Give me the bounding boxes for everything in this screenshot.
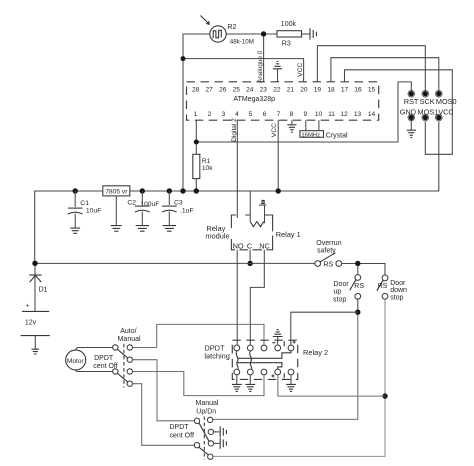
node junction dot (Analogue 0 net) [261,31,266,36]
svg-text:RS: RS [378,283,388,290]
manual lever 1 [199,423,209,442]
svg-text:6: 6 [263,111,267,118]
svg-text:NC: NC [259,241,270,250]
junction dot on R2 feed [181,56,186,61]
svg-text:cent Off: cent Off [170,433,194,440]
switch door down stop bottom terminal [382,293,388,299]
svg-text:R2: R2 [228,24,237,31]
wire R1 to +5V rail [195,179,197,191]
switch manual throw 3 [208,441,213,446]
capacitor C3 [162,191,177,225]
IC U1 ATMega328p [187,82,379,120]
wire to door up stop [357,266,359,275]
svg-text:down: down [390,287,407,294]
relay2 linkage bar A [238,351,291,358]
svg-text:VCC: VCC [271,123,278,137]
wire node to R3 [226,33,277,35]
junction dot R1 on +5V rail [194,188,199,193]
ground (C1) [70,228,80,233]
relay module box (Relay 1) [231,215,272,250]
relay2 top contact 5 [288,345,294,351]
photoresistor R2 [201,16,227,43]
svg-text:Overrun: Overrun [316,240,341,247]
svg-text:D1: D1 [39,287,48,294]
auto/manual lever 1 [117,349,128,358]
svg-text:stop: stop [390,294,403,301]
svg-text:22: 22 [273,86,281,93]
capacitor C1 [68,191,83,228]
svg-text:100uF: 100uF [140,201,159,208]
ISP header pad MOS0 [436,91,441,96]
svg-text:MOS1: MOS1 [418,107,439,116]
svg-text:up: up [334,289,342,296]
relay2 coil polarity minus [272,342,275,344]
svg-text:RST: RST [404,97,419,106]
resistor R1 [193,154,200,178]
wire pin 10 to crystal [318,120,320,131]
svg-text:23: 23 [260,86,268,93]
switch auto/manual pole 1 [113,345,118,350]
ground (relay2 bottom contact 2) [245,375,255,391]
ground (manual throw 2, rotated) [220,426,226,437]
svg-text:stop: stop [333,296,346,303]
svg-text:10: 10 [315,111,323,118]
svg-text:27: 27 [206,86,214,93]
wire relay2 bottom contact 4 to door-down net [278,375,385,396]
svg-text:9: 9 [303,111,307,118]
relay2 top contact 2 [247,345,253,351]
junction dot C3 [167,188,172,193]
svg-text:ATMega328p: ATMega328p [234,96,276,103]
svg-text:Digital 2: Digital 2 [231,118,238,142]
svg-text:SCK: SCK [420,97,435,106]
door up stop lever [350,280,356,291]
wire manual throw 2 to ground [214,431,220,433]
svg-text:12: 12 [340,111,348,118]
capacitor C2 [135,191,150,225]
relay2 top contact 3 [261,345,267,351]
wire auto throw1 to relay2 pin 3 top [133,324,265,347]
ISP header pad SCK [423,91,428,96]
switch manual pole 2 [194,443,199,448]
svg-text:RS: RS [354,283,364,290]
wire pin 17 to MOS1 [345,70,453,155]
svg-text:R3: R3 [282,41,291,48]
svg-text:C2: C2 [127,200,136,207]
wire R2 left to vertical feed [183,34,210,191]
svg-text:VCC: VCC [297,62,304,76]
ground (ISP GND) [407,120,416,138]
switch door down stop top terminal [382,275,388,281]
junction dot relay1 C [247,261,252,266]
relay 1 coil [250,222,264,227]
svg-text:24: 24 [246,86,254,93]
svg-text:MOS0: MOS0 [436,97,457,106]
ground (7805) [111,196,122,231]
svg-text:C: C [247,241,253,250]
svg-text:11: 11 [328,111,335,118]
svg-text:10uF: 10uF [86,208,102,215]
svg-text:Relay 1: Relay 1 [276,230,301,239]
svg-text:Analogue 0: Analogue 0 [257,50,264,83]
wire door down stop to lower junction [213,299,385,456]
svg-text:Manual: Manual [118,336,141,343]
wire relay1 C to 12V line [249,250,251,263]
svg-text:Manual: Manual [196,400,219,407]
ground (relay2 bottom contact 5) [286,375,296,391]
ground (relay2 top, pin 4) [273,330,283,345]
ISP header pad MOS1 [423,115,428,120]
wire pin 1 riser [195,120,197,154]
wire pin 7 to +5V rail [277,120,279,191]
auto/manual lever 2 [117,373,128,382]
svg-text:4: 4 [235,111,239,118]
wire relay1 NC to relay2 pin 2 [250,250,264,345]
wire auto throw2 to manual pole 1 [133,360,195,421]
wire door up stop to junction [357,299,359,312]
svg-text:latching: latching [204,352,229,361]
svg-text:17: 17 [341,86,349,93]
door down stop lever [377,280,383,291]
switch manual throw 2 [208,429,213,434]
ground (battery) [32,349,40,354]
svg-text:5: 5 [249,111,253,118]
svg-text:16: 16 [354,86,362,93]
wire +5V rail [130,122,439,192]
switch manual throw 4 [208,454,213,459]
relay2 coil polarity plus (bottom) [272,374,275,377]
wire coil to driver symbol [264,205,266,223]
wire auto throw3 to relay2 pin 3 bottom [133,372,265,396]
wire manual throw 3 to ground [214,442,220,444]
svg-text:3: 3 [222,111,226,118]
svg-text:Auto/: Auto/ [120,328,136,335]
svg-text:RS: RS [324,262,334,269]
junction dot C1 [73,188,78,193]
svg-text:DPDT: DPDT [170,424,190,431]
wire pin 18 to MOS0 [331,58,439,92]
manual lever 2 [199,447,209,455]
svg-text:19: 19 [314,86,322,93]
svg-text:13: 13 [354,111,362,118]
svg-text:26: 26 [219,86,227,93]
junction dot C2 [140,188,145,193]
junction dot door-down net [382,393,387,398]
switch overrun safety terminal L [315,261,321,267]
svg-text:7805 vr: 7805 vr [105,189,128,196]
svg-text:Up/Dn: Up/Dn [196,409,216,416]
svg-text:module: module [205,231,229,240]
relay2 bottom contact 4 [275,369,281,375]
wire pin 4 Digital 2 to relay module input [236,120,238,218]
svg-text:16MHz: 16MHz [301,132,320,138]
wire 12V to overrun switch [35,262,315,264]
svg-text:14: 14 [368,111,376,118]
ground (pin 8) [287,120,296,132]
switch overrun safety terminal R [336,261,342,267]
junction dot pin7 VCC on +5V rail [276,188,281,193]
svg-text:.1uF: .1uF [180,208,194,215]
wire pin 9 to crystal [305,120,307,131]
ground (C2) [136,226,149,232]
svg-text:safety: safety [317,248,336,255]
svg-text:8: 8 [290,111,294,118]
wire R3 to ground [302,33,310,35]
wire junction down to manual switch throw 1 [213,315,358,420]
svg-text:GND: GND [400,107,416,116]
ISP header pad GND [409,115,414,120]
wire 12V input rail [35,191,103,263]
wire motor lower to pole 2 [75,369,113,371]
relay2 top contact 1 [234,345,240,351]
junction dot overrun/door-up [355,261,360,266]
motor M1 [66,350,86,370]
relay2 armature spring 2 [250,351,252,369]
svg-text:Door: Door [390,280,406,287]
svg-text:VCC: VCC [438,107,453,116]
svg-text:1: 1 [194,111,198,118]
svg-text:Crystal: Crystal [326,133,348,140]
switch door up stop bottom terminal [355,293,361,299]
junction dot D1 node [32,261,37,266]
overrun safety lever [320,253,335,262]
relay 2 box (DPDT latching) dashed [232,340,297,379]
svg-text:15: 15 [368,86,376,93]
relay2 armature spring 1 [236,351,238,369]
wire battery minus to ground [34,336,36,349]
wire Analogue 0 node to pin 23 [263,37,265,82]
voltage regulator U2 7805 [103,186,130,196]
svg-text:DPDT: DPDT [94,355,114,362]
wire RST to pin 1 [196,82,411,142]
svg-text:21: 21 [287,86,295,93]
wire relay1 coil to +5V [249,191,251,222]
svg-text:28: 28 [192,86,200,93]
wire motor upper to pole 1 [75,348,113,351]
wire overrun to door stops [342,264,385,275]
svg-text:NO: NO [233,241,244,250]
switch auto/manual throw 3 [127,369,132,374]
relay2 bottom contact 1 [234,369,240,375]
junction dot R2 feed on +5V rail [180,188,185,193]
ground (above pin 22) [273,61,282,81]
relay2 linkage bar B [237,363,282,369]
manual pole link (dashed) [203,417,205,460]
svg-text:18: 18 [327,86,335,93]
svg-text:100k: 100k [281,21,297,28]
relay2 coil partition dash (top) [283,341,285,378]
switch auto/manual pole 2 [113,369,118,374]
wire relay1 NO to relay2 pin 1 [236,250,238,345]
relay2 bottom contact 5 [288,369,294,375]
wire auto throw4 to manual pole 2 [133,384,195,446]
wire pin 19 to SCK [317,46,425,92]
svg-text:2: 2 [208,111,212,118]
battery BT1 plates [21,311,50,335]
relay2 bottom contact 2 [247,369,253,375]
wire +5V to pin 20 (VCC) [183,59,304,82]
svg-text:Motor: Motor [67,358,84,365]
junction dot pin1/RST [194,140,199,145]
svg-text:7: 7 [277,111,281,118]
ground (manual throw 3, rotated) [220,438,226,449]
ground (relay2 bottom contact 1) [232,375,242,391]
switch auto/manual throw 2 [127,357,132,362]
relay2 coil polarity plus (top) [293,341,296,344]
resistor R3 [277,31,302,37]
relay2 top contact 4 [275,345,281,351]
svg-text:10k: 10k [202,165,213,172]
switch door up stop top terminal [355,275,361,281]
svg-text:C1: C1 [80,200,89,207]
ground (right of R3, rotated) [310,28,316,40]
svg-text:R1: R1 [202,158,211,165]
switch manual pole 1 [194,418,199,423]
crystal X1 16MHz [300,131,324,138]
relay2 bottom contact 3 [261,369,267,375]
ISP header pad RST [409,91,414,96]
svg-text:48k-10M: 48k-10M [230,38,254,45]
switch manual throw 1 [207,417,212,422]
svg-text:C3: C3 [174,200,183,207]
coil driver symbol [259,200,267,205]
wire junction to relay2 pin 5 [291,312,358,345]
switch auto/manual throw 1 [127,345,132,350]
ISP header pad VCC [436,115,441,120]
wire D1 node down [34,266,36,312]
svg-text:25: 25 [233,86,241,93]
junction dot door-up net [355,310,360,315]
diode D1 [29,275,41,282]
ground (C3) [163,226,176,232]
svg-text:Door: Door [334,281,350,288]
svg-text:12v: 12v [25,320,37,327]
switch auto/manual throw 4 [127,381,132,386]
svg-text:Relay 2: Relay 2 [303,348,328,357]
svg-text:+: + [26,303,30,310]
auto/manual pole link (dashed) [123,344,125,388]
svg-text:20: 20 [300,86,308,93]
